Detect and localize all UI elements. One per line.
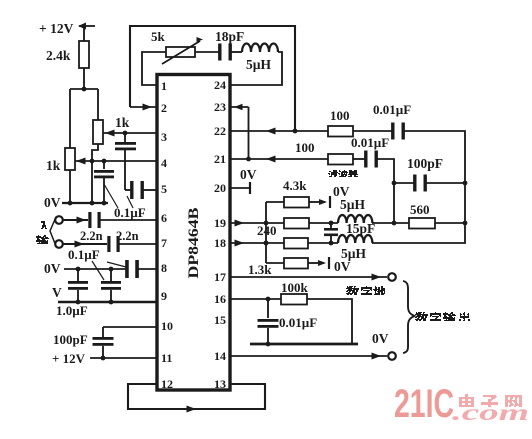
svg-text:7: 7 xyxy=(161,236,167,250)
wire pin 21 row xyxy=(231,156,328,163)
svg-text:0V: 0V xyxy=(44,261,61,276)
wire right branch down xyxy=(97,89,99,120)
resistor R1 2.4k xyxy=(79,41,89,68)
label 0.1uF lower with leader lines xyxy=(68,247,126,280)
wire 5k to 18pF xyxy=(195,51,220,53)
resistor R12 100k xyxy=(281,294,307,305)
wire 100k to corner down xyxy=(307,299,352,344)
svg-text:2.2n: 2.2n xyxy=(80,229,103,243)
svg-text:1k: 1k xyxy=(115,115,130,130)
label shuzidi digital ground xyxy=(346,287,385,295)
label shuzishuchu digital output xyxy=(415,313,470,321)
wire 560 to bus xyxy=(435,221,467,226)
label filter lvboqi xyxy=(328,171,358,177)
node input terminal 1 xyxy=(55,216,63,224)
capacitor C6 pin 8 coupling xyxy=(125,260,157,278)
wire left branch down xyxy=(69,89,71,148)
svg-text:100pF: 100pF xyxy=(407,156,443,171)
svg-text:24: 24 xyxy=(214,78,226,92)
svg-text:5µH: 5µH xyxy=(340,197,366,212)
watermark dianziwang xyxy=(459,395,522,407)
svg-text:17: 17 xyxy=(214,270,226,284)
wire 4.3k row left riser xyxy=(264,202,269,263)
svg-text:0V: 0V xyxy=(334,259,351,274)
svg-text:DP8464B: DP8464B xyxy=(186,208,202,279)
wire 100pF row xyxy=(394,182,414,184)
wire 0V rail bottom xyxy=(250,343,358,346)
wire cap to right bus xyxy=(403,131,465,223)
svg-text:0.01µF: 0.01µF xyxy=(279,315,317,330)
wire pin 18 row xyxy=(231,240,284,247)
svg-text:0.1µF: 0.1µF xyxy=(114,205,146,220)
wire r11 to 0V terminal xyxy=(308,257,329,269)
wire pin 11 row xyxy=(90,357,157,359)
capacitor C9 100pF pin10-pin11 xyxy=(93,337,114,360)
wire coil to 560 junction xyxy=(372,221,409,226)
svg-text:100pF: 100pF xyxy=(53,332,88,347)
wire pin 22 row xyxy=(231,128,328,135)
svg-text:18pF: 18pF xyxy=(215,29,244,44)
wire pin 9 rail xyxy=(58,300,157,305)
wire outer feedback box top xyxy=(130,26,295,131)
svg-text:1.3k: 1.3k xyxy=(248,262,272,277)
capacitor C10 18pF xyxy=(218,44,232,61)
svg-text:.com: .com xyxy=(452,400,529,425)
capacitor C8 1.0uF shunt right xyxy=(101,269,121,302)
svg-text:19: 19 xyxy=(214,216,226,230)
resistor R9 560 xyxy=(409,218,435,229)
wire 0V rail upper left xyxy=(62,201,108,206)
wire pin 4 row xyxy=(75,158,157,165)
wire 100pF to bus xyxy=(426,181,467,186)
svg-text:22: 22 xyxy=(214,124,226,138)
svg-text:4.3k: 4.3k xyxy=(283,178,307,193)
wire pin 17 row digital ground xyxy=(231,274,387,281)
svg-text:18: 18 xyxy=(214,236,226,250)
svg-text:14: 14 xyxy=(214,349,226,363)
svg-text:5k: 5k xyxy=(151,29,166,44)
capacitor C14 15pF between rows xyxy=(324,223,338,243)
svg-text:+ 12V: + 12V xyxy=(52,351,86,366)
wire 100 to cap xyxy=(353,130,392,132)
wire r10 to coil2 xyxy=(308,241,338,246)
watermark .com xyxy=(452,400,529,425)
wire pin 19 row xyxy=(231,220,284,227)
svg-text:1k: 1k xyxy=(46,158,61,173)
svg-text:V: V xyxy=(52,285,62,300)
wire cap to mid bus down xyxy=(376,159,396,223)
label input shuru vertical xyxy=(36,217,56,246)
wire input 2 arrow xyxy=(63,241,107,248)
capacitor C12 0.01uF pin21 row xyxy=(364,151,378,168)
resistor R6 100 pin21 xyxy=(328,154,353,165)
svg-text:0.1µF: 0.1µF xyxy=(68,247,100,262)
brace digital output xyxy=(403,281,415,353)
svg-text:21IC: 21IC xyxy=(394,382,454,426)
svg-text:1: 1 xyxy=(161,79,167,93)
pin numbers left 1-12 xyxy=(161,79,173,391)
watermark 21IC logo xyxy=(394,382,454,426)
svg-text:1.0µF: 1.0µF xyxy=(56,303,88,318)
svg-text:0V: 0V xyxy=(44,195,61,210)
wire 1k left to 0V rail xyxy=(69,170,71,203)
svg-text:0.01µF: 0.01µF xyxy=(373,102,411,117)
svg-text:2.4k: 2.4k xyxy=(46,48,71,63)
wire pin 8 row xyxy=(64,267,126,272)
svg-text:100k: 100k xyxy=(281,280,309,295)
wire 18pF to coil xyxy=(230,51,242,53)
svg-text:560: 560 xyxy=(410,202,430,217)
svg-text:100: 100 xyxy=(330,108,350,123)
capacitor C15 0.01uF bottom xyxy=(258,299,279,346)
svg-text:12: 12 xyxy=(161,377,173,391)
wire pin 3 row xyxy=(103,130,157,137)
resistor R5 100 pin22 xyxy=(328,126,353,137)
svg-text:5: 5 xyxy=(161,182,167,196)
wire pin 16 row xyxy=(231,297,281,302)
wire 240 to coil junction xyxy=(309,221,338,226)
svg-text:20: 20 xyxy=(214,181,226,195)
svg-text:16: 16 xyxy=(214,292,226,306)
inductor L1 5uH top xyxy=(242,44,278,53)
wire 1k right bottom jog to ground line xyxy=(92,144,98,203)
resistor R7 4.3k xyxy=(266,197,309,208)
node junction below 2.4k xyxy=(70,87,98,92)
wire pin 1 to 5k xyxy=(142,52,166,85)
pin numbers right 24-13 xyxy=(214,78,226,391)
wire into pin 2 with arrow xyxy=(130,104,157,111)
resistor R10 pin18 xyxy=(284,238,308,249)
wire input 1 arrow xyxy=(63,217,88,224)
capacitor C5 2.2n pin 7 xyxy=(107,236,157,252)
wire 2.4k to junction xyxy=(83,68,85,89)
resistor R8 240 xyxy=(284,218,309,229)
svg-text:0V: 0V xyxy=(240,167,257,182)
capacitor C11 0.01uF pin22 row xyxy=(391,123,405,140)
svg-text:6: 6 xyxy=(161,211,167,225)
wire pin 23 hook to pin 21 row xyxy=(231,104,251,162)
svg-text:240: 240 xyxy=(257,223,277,238)
svg-text:3: 3 xyxy=(161,130,167,144)
label 0.1uF upper with leader lines xyxy=(104,184,146,220)
svg-text:0.01µF: 0.01µF xyxy=(351,135,389,150)
capacitor C13 100pF right xyxy=(413,175,427,192)
svg-text:10: 10 xyxy=(161,319,173,333)
capacitor C1 under pin 3 row xyxy=(115,133,136,190)
svg-text:11: 11 xyxy=(161,351,172,365)
svg-text:15: 15 xyxy=(214,313,226,327)
resistor R3 1k right xyxy=(93,120,103,144)
wire pin12 pin13 feedback loop xyxy=(128,384,265,413)
svg-text:21: 21 xyxy=(214,152,226,166)
wire pin 14 row output xyxy=(231,353,387,360)
svg-text:13: 13 xyxy=(214,377,226,391)
svg-text:15pF: 15pF xyxy=(346,221,375,236)
svg-text:100: 100 xyxy=(295,140,315,155)
wire pin 10 row xyxy=(103,327,157,337)
wire pin 20 0V stub xyxy=(231,182,250,194)
inductor L2 5uH pin19 xyxy=(338,215,372,223)
wire pin18 row to right bus riser xyxy=(372,223,465,243)
svg-text:+ 12V: + 12V xyxy=(39,21,74,36)
node input terminal 2 xyxy=(55,240,63,248)
svg-text:9: 9 xyxy=(161,289,167,303)
capacitor C4 2.2n pin 6 xyxy=(88,212,157,228)
svg-text:0V: 0V xyxy=(372,331,389,346)
IC U1 DP8464B body xyxy=(157,75,230,391)
capacitor C7 shunt left xyxy=(68,269,88,302)
capacitor C2 0.1uF under pin 4 row xyxy=(94,161,114,203)
node output terminal bottom xyxy=(388,352,396,360)
svg-text:2.2n: 2.2n xyxy=(116,229,139,243)
svg-text:23: 23 xyxy=(214,100,226,114)
svg-text:4: 4 xyxy=(161,156,167,170)
wire coil to pin 24 xyxy=(231,52,282,85)
resistor R4 5k variable xyxy=(162,37,203,64)
wire 4.3k to 0V terminal xyxy=(309,196,330,208)
node digital ground terminal xyxy=(388,273,396,281)
resistor R11 1.3k lower xyxy=(266,258,308,269)
wire 100 to cap pin21 xyxy=(353,158,365,160)
svg-text:5µH: 5µH xyxy=(246,57,272,72)
svg-text:2: 2 xyxy=(161,101,167,115)
svg-text:8: 8 xyxy=(161,261,167,275)
resistor R2 1k left xyxy=(65,148,75,170)
node +12V supply terminal xyxy=(78,23,95,42)
inductor L3 5uH pin18 xyxy=(338,235,372,243)
capacitor C3 pin 5 coupling xyxy=(125,181,157,199)
